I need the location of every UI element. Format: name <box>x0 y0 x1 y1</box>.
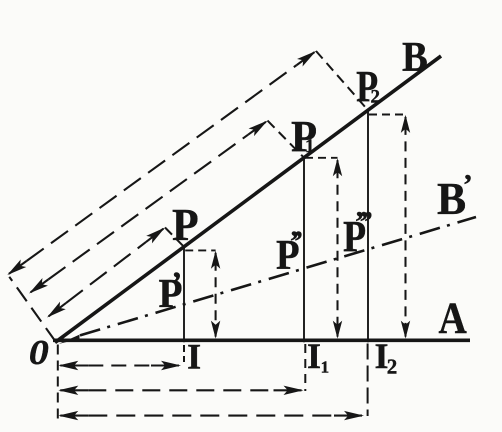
svg-text:’’’: ’’’ <box>354 206 371 239</box>
svg-text:1: 1 <box>305 136 315 157</box>
svg-text:I: I <box>307 336 321 376</box>
svg-text:I: I <box>187 337 201 377</box>
svg-text:2: 2 <box>371 87 381 108</box>
svg-text:1: 1 <box>321 357 330 376</box>
svg-text:’’: ’’ <box>289 225 301 258</box>
svg-text:A: A <box>439 294 467 343</box>
svg-text:P: P <box>172 199 199 250</box>
svg-text:’: ’ <box>463 169 473 202</box>
svg-text:0: 0 <box>29 334 49 372</box>
svg-text:B: B <box>402 34 428 81</box>
svg-text:’: ’ <box>171 266 182 302</box>
svg-text:2: 2 <box>387 355 398 379</box>
svg-text:B: B <box>437 173 466 224</box>
